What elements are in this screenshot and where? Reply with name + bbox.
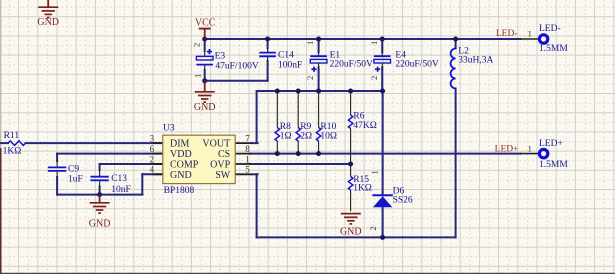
svg-text:33uH,3A: 33uH,3A <box>458 55 493 65</box>
svg-text:DIM: DIM <box>170 139 190 150</box>
svg-text:C14: C14 <box>278 50 294 60</box>
svg-text:4: 4 <box>150 165 155 175</box>
svg-text:1KΩ: 1KΩ <box>353 184 372 194</box>
svg-text:E3: E3 <box>215 51 226 61</box>
svg-text:BP1808: BP1808 <box>164 186 195 196</box>
svg-text:6: 6 <box>150 144 155 154</box>
svg-text:2: 2 <box>150 154 155 164</box>
svg-text:1: 1 <box>369 41 379 45</box>
svg-text:LED+: LED+ <box>539 139 563 149</box>
svg-text:U3: U3 <box>163 123 175 133</box>
svg-text:2: 2 <box>191 43 201 47</box>
svg-text:1: 1 <box>305 41 315 45</box>
svg-text:2Ω: 2Ω <box>300 131 312 141</box>
svg-text:10nF: 10nF <box>111 185 131 195</box>
svg-text:1: 1 <box>528 143 532 153</box>
svg-text:1: 1 <box>245 154 250 164</box>
svg-text:2: 2 <box>369 76 379 80</box>
svg-text:VOUT: VOUT <box>202 139 230 150</box>
svg-text:VCC: VCC <box>195 17 216 28</box>
svg-text:1.5MM: 1.5MM <box>539 44 568 54</box>
svg-text:GND: GND <box>37 17 59 28</box>
svg-text:SW: SW <box>215 170 231 181</box>
svg-text:5: 5 <box>245 165 250 175</box>
svg-text:1uF: 1uF <box>68 174 83 184</box>
svg-text:220uF/50V: 220uF/50V <box>395 60 438 70</box>
svg-text:GND: GND <box>170 170 192 181</box>
svg-text:1: 1 <box>528 29 532 39</box>
svg-text:2: 2 <box>305 76 315 80</box>
svg-text:SS26: SS26 <box>393 196 413 206</box>
svg-text:1.5MM: 1.5MM <box>539 160 568 170</box>
svg-text:C9: C9 <box>68 164 79 174</box>
svg-text:LED-: LED- <box>539 24 561 34</box>
svg-text:3: 3 <box>150 133 155 143</box>
svg-text:1KΩ: 1KΩ <box>3 146 22 156</box>
svg-text:220uF/50V: 220uF/50V <box>330 60 373 70</box>
svg-text:47KΩ: 47KΩ <box>353 121 376 131</box>
svg-text:GND: GND <box>194 102 216 113</box>
svg-text:8: 8 <box>245 144 250 154</box>
svg-text:1: 1 <box>369 170 379 174</box>
svg-text:C13: C13 <box>111 174 127 184</box>
svg-text:LED+: LED+ <box>495 144 519 154</box>
svg-text:GND: GND <box>89 218 111 229</box>
svg-text:1Ω: 1Ω <box>280 131 292 141</box>
svg-text:GND: GND <box>340 227 362 238</box>
svg-text:7: 7 <box>245 133 250 143</box>
svg-text:CS: CS <box>218 149 230 160</box>
svg-text:LED-: LED- <box>496 29 518 39</box>
svg-text:R11: R11 <box>4 131 20 141</box>
svg-text:10Ω: 10Ω <box>320 131 337 141</box>
svg-text:2: 2 <box>368 226 378 230</box>
svg-text:1: 1 <box>192 74 202 78</box>
svg-text:VDD: VDD <box>170 149 192 160</box>
svg-text:100nF: 100nF <box>278 61 302 71</box>
svg-text:47uF/100V: 47uF/100V <box>215 62 258 72</box>
